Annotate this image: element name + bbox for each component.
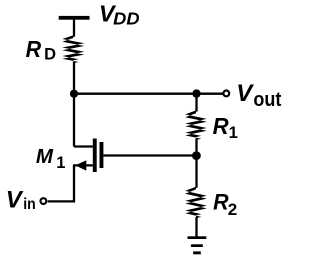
svg-text:V: V bbox=[6, 186, 24, 213]
node A junction dot bbox=[70, 90, 78, 98]
label RD bbox=[26, 36, 56, 63]
resistor RD bbox=[62, 35, 84, 63]
wire drain to node A bbox=[73, 94, 75, 147]
svg-text:out: out bbox=[253, 88, 281, 111]
source lead bbox=[74, 164, 93, 166]
label M1 bbox=[36, 145, 65, 172]
wire source down to Vin row bbox=[48, 164, 74, 201]
wire VDD to RD bbox=[73, 20, 75, 37]
node B junction dot bbox=[192, 89, 200, 97]
wire R1 to node C bbox=[195, 139, 197, 156]
svg-text:M: M bbox=[36, 145, 54, 168]
source arrow bbox=[75, 160, 86, 170]
label R2 bbox=[213, 189, 237, 219]
label Vin bbox=[6, 186, 36, 213]
wire node A to node B (output row) bbox=[74, 93, 223, 95]
node C junction dot bbox=[192, 151, 201, 160]
input terminal circle bbox=[41, 198, 47, 204]
svg-text:2: 2 bbox=[228, 200, 237, 219]
svg-text:1: 1 bbox=[229, 124, 238, 142]
svg-text:D: D bbox=[44, 45, 56, 63]
svg-text:1: 1 bbox=[56, 154, 65, 172]
ground bbox=[188, 236, 207, 254]
svg-text:DD: DD bbox=[113, 9, 140, 29]
wire RD to node A bbox=[73, 62, 75, 94]
resistor R2 bbox=[185, 187, 207, 219]
channel bar bbox=[93, 139, 97, 173]
wire node C to R2 bbox=[195, 156, 197, 188]
drain lead bbox=[74, 145, 93, 147]
transistor M1 bbox=[74, 139, 103, 173]
label Vout bbox=[236, 80, 281, 111]
output terminal circle bbox=[223, 91, 229, 97]
label R1 bbox=[213, 113, 238, 142]
resistor R1 bbox=[185, 110, 207, 139]
label VDD bbox=[99, 0, 140, 28]
svg-text:V: V bbox=[236, 80, 254, 107]
VDD supply bar bbox=[59, 16, 90, 20]
svg-text:R: R bbox=[26, 36, 42, 62]
gate bar bbox=[100, 142, 104, 168]
wire gate to node C bbox=[103, 154, 196, 156]
svg-text:in: in bbox=[23, 196, 36, 213]
wire R2 to ground bbox=[195, 217, 197, 237]
svg-text:R: R bbox=[213, 113, 229, 139]
wire node B to R1 bbox=[195, 94, 197, 112]
